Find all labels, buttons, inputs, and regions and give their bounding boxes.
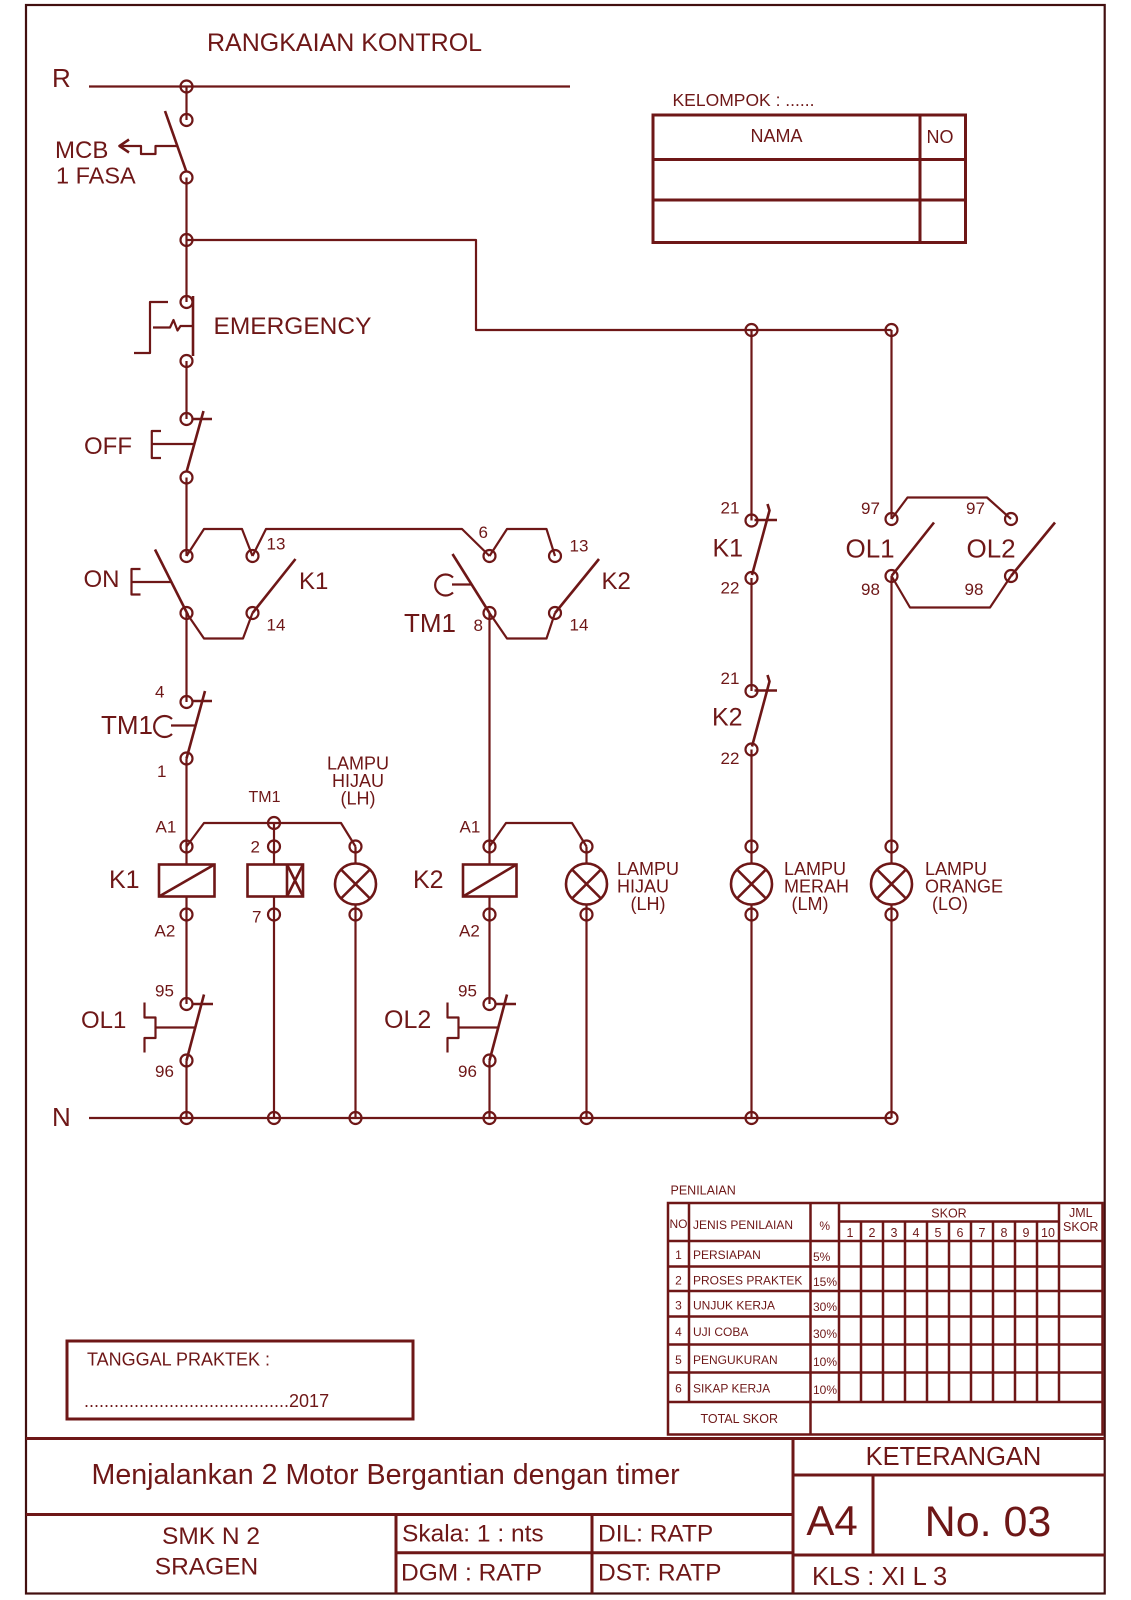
- wire tap to node 2: [273, 823, 275, 865]
- svg-text:JENIS PENILAIAN: JENIS PENILAIAN: [693, 1218, 793, 1232]
- timer contact TM1 6-8: [404, 523, 496, 638]
- node lamp LH1 bottom: [350, 909, 362, 921]
- wire OFF to ON: [185, 478, 187, 557]
- svg-text:OL2: OL2: [967, 534, 1016, 564]
- svg-text:A1: A1: [460, 818, 481, 837]
- node R-MCB junction: [181, 81, 193, 93]
- node A1 of K2: [484, 841, 496, 853]
- NC overload aux OL1 97-98: [846, 499, 935, 599]
- svg-text:A2: A2: [155, 922, 176, 941]
- wire branch bus to lamp LH2: [490, 823, 587, 847]
- table KELOMPOK names: [653, 115, 966, 243]
- wire emergency to OFF: [185, 361, 187, 419]
- node N-LH2: [581, 1112, 593, 1124]
- node 2 TM1 coil: [268, 841, 280, 853]
- timer coil TM1: [248, 865, 304, 897]
- label LAMPU ORANGE (LO): [925, 859, 1003, 914]
- svg-text:5: 5: [675, 1353, 682, 1367]
- box TANGGAL PRAKTEK: [67, 1341, 413, 1419]
- svg-text:10%: 10%: [813, 1383, 837, 1397]
- svg-text:TM1: TM1: [249, 789, 281, 806]
- svg-text:PERSIAPAN: PERSIAPAN: [693, 1248, 761, 1262]
- node N-LM: [746, 1112, 758, 1124]
- svg-text:EMERGENCY: EMERGENCY: [214, 313, 372, 340]
- svg-text:2: 2: [675, 1274, 682, 1288]
- node N-LH1: [350, 1112, 362, 1124]
- lamp LO orange: [871, 864, 912, 905]
- svg-text:SRAGEN: SRAGEN: [155, 1554, 258, 1581]
- svg-text:95: 95: [458, 982, 477, 1001]
- svg-text:TOTAL SKOR: TOTAL SKOR: [700, 1412, 778, 1426]
- label SMK N 2 SRAGEN: [155, 1523, 260, 1581]
- wire branch bus to TM1 coil and lamp LH1: [187, 823, 356, 847]
- svg-text:(LH): (LH): [631, 894, 666, 914]
- svg-text:K1: K1: [299, 568, 328, 595]
- NC contact K2 21-22: [712, 669, 777, 768]
- auxiliary contact K1 13-14: [247, 535, 329, 635]
- push button ON: [84, 550, 193, 620]
- svg-text:9: 9: [1023, 1226, 1030, 1240]
- wire K2 coil to OL2: [488, 897, 490, 1005]
- svg-text:21: 21: [721, 669, 740, 688]
- node lamp LH1 top: [350, 841, 362, 853]
- svg-text:(LM): (LM): [792, 894, 829, 914]
- svg-text:10%: 10%: [813, 1355, 837, 1369]
- wire bus 97-97: [892, 498, 1012, 520]
- svg-text:96: 96: [458, 1062, 477, 1081]
- svg-text:13: 13: [267, 535, 286, 554]
- breaker MCB 1 FASA: [55, 111, 193, 189]
- push button OFF: [84, 411, 212, 484]
- node right branch OL column: [886, 324, 898, 336]
- wire lamp LO to N: [890, 905, 892, 1119]
- svg-text:UNJUK KERJA: UNJUK KERJA: [693, 1299, 775, 1313]
- svg-text:8: 8: [1001, 1226, 1008, 1240]
- node lamp LM top: [746, 841, 758, 853]
- svg-text:21: 21: [721, 499, 740, 518]
- svg-text:15%: 15%: [813, 1275, 837, 1289]
- svg-text:SKOR: SKOR: [1063, 1220, 1098, 1234]
- svg-text:N: N: [52, 1102, 71, 1132]
- svg-text:TM1: TM1: [101, 710, 153, 740]
- svg-text:6: 6: [479, 523, 488, 542]
- wire lamp LM to N: [750, 905, 752, 1119]
- wire top bus to K1 aux contact: [187, 529, 253, 556]
- svg-text:97: 97: [966, 499, 985, 518]
- node A2 of K1: [181, 909, 193, 921]
- wire N bus: [89, 1117, 892, 1119]
- svg-text:1: 1: [157, 762, 166, 781]
- svg-text:1: 1: [847, 1226, 854, 1240]
- svg-text:(LH): (LH): [341, 789, 376, 809]
- wire bottom bus ON to 14: [187, 613, 253, 639]
- svg-text:DST: RATP: DST: RATP: [598, 1559, 721, 1586]
- svg-text:96: 96: [155, 1062, 174, 1081]
- svg-text:3: 3: [891, 1226, 898, 1240]
- svg-text:22: 22: [721, 579, 740, 598]
- wire bottom bus 8 to 14: [490, 613, 556, 639]
- emergency stop switch EMERGENCY: [134, 296, 371, 367]
- node lamp LO bottom: [886, 909, 898, 921]
- svg-text:3: 3: [675, 1299, 682, 1313]
- svg-text:PENILAIAN: PENILAIAN: [671, 1184, 736, 1198]
- svg-text:MCB: MCB: [55, 137, 108, 164]
- svg-text:5%: 5%: [813, 1250, 831, 1264]
- node right branch K1-NC column: [746, 324, 758, 336]
- wire K2 NC to lamp LM: [750, 750, 752, 864]
- svg-text:..............................: ........................................…: [84, 1391, 329, 1411]
- wire K1 NC to K2 NC: [750, 578, 752, 691]
- svg-text:SIKAP KERJA: SIKAP KERJA: [693, 1382, 770, 1396]
- svg-text:22: 22: [721, 749, 740, 768]
- overload contact OL1 95-96: [81, 982, 213, 1082]
- svg-text:KELOMPOK : ......: KELOMPOK : ......: [673, 90, 815, 110]
- svg-text:JML: JML: [1069, 1206, 1093, 1220]
- svg-text:4: 4: [675, 1325, 682, 1339]
- svg-text:7: 7: [252, 908, 261, 927]
- label LAMPU HIJAU (LH): [327, 754, 389, 809]
- wire top bus to K2 branch: [253, 529, 490, 556]
- coil K2: [413, 865, 517, 897]
- svg-text:No. 03: No. 03: [925, 1498, 1052, 1546]
- svg-text:OL1: OL1: [846, 534, 895, 564]
- svg-text:8: 8: [474, 616, 483, 635]
- svg-text:95: 95: [155, 982, 174, 1001]
- svg-text:14: 14: [570, 616, 589, 635]
- node TM1 coil bus tap: [268, 817, 280, 829]
- wire ON bottom to TM1 contact: [185, 613, 187, 702]
- svg-text:4: 4: [155, 683, 164, 702]
- svg-text:ON: ON: [84, 566, 120, 593]
- coil K1: [109, 865, 215, 897]
- svg-text:KLS : XI L 3: KLS : XI L 3: [812, 1563, 947, 1591]
- svg-text:(LO): (LO): [932, 894, 968, 914]
- svg-text:97: 97: [861, 499, 880, 518]
- node lamp LH2 bottom: [581, 909, 593, 921]
- node branch junction: [181, 234, 193, 246]
- node lamp LO top: [886, 841, 898, 853]
- lamp LH1 green: [335, 864, 376, 905]
- svg-text:NO: NO: [927, 127, 954, 147]
- svg-text:A4: A4: [806, 1497, 857, 1544]
- svg-text:Skala: 1 : nts: Skala: 1 : nts: [402, 1521, 544, 1548]
- lamp LM red: [731, 864, 772, 905]
- svg-text:6: 6: [957, 1226, 964, 1240]
- svg-text:10: 10: [1041, 1226, 1055, 1240]
- wire OL2 to N: [488, 1061, 490, 1119]
- svg-text:UJI COBA: UJI COBA: [693, 1325, 748, 1339]
- node 7 TM1 coil: [268, 909, 280, 921]
- wire R bus: [89, 85, 570, 87]
- svg-text:%: %: [819, 1219, 830, 1233]
- svg-text:NO: NO: [670, 1217, 688, 1231]
- svg-text:6: 6: [675, 1382, 682, 1396]
- svg-text:SMK N 2: SMK N 2: [162, 1523, 260, 1550]
- table PENILAIAN score: [668, 1203, 1103, 1435]
- svg-text:5: 5: [935, 1226, 942, 1240]
- node N-TM1coil: [268, 1112, 280, 1124]
- node N-OL2: [484, 1112, 496, 1124]
- lamp LH2 green: [566, 864, 607, 905]
- wire K1 coil to OL1: [185, 897, 187, 1005]
- svg-text:30%: 30%: [813, 1300, 837, 1314]
- wire TM1-8 node to K2 coil: [488, 613, 490, 865]
- svg-text:DGM : RATP: DGM : RATP: [401, 1559, 542, 1586]
- svg-text:13: 13: [570, 537, 589, 556]
- svg-text:1 FASA: 1 FASA: [56, 163, 136, 189]
- svg-text:A2: A2: [459, 922, 480, 941]
- label LAMPU HIJAU (LH) 2: [617, 859, 679, 914]
- svg-text:R: R: [52, 63, 71, 93]
- wire bus 98-98: [892, 576, 1012, 608]
- svg-text:K1: K1: [109, 866, 140, 894]
- wire junction to right branches: [187, 240, 892, 330]
- wire bus 6 to 13 of K2 aux: [490, 529, 556, 556]
- title block frame: [26, 1439, 1105, 1594]
- svg-text:Menjalankan 2 Motor Bergantian: Menjalankan 2 Motor Bergantian dengan ti…: [92, 1459, 681, 1491]
- NC overload aux OL2 97-98: [965, 499, 1056, 599]
- svg-text:OL1: OL1: [81, 1007, 126, 1034]
- svg-text:K2: K2: [712, 704, 743, 732]
- svg-text:A1: A1: [156, 818, 177, 837]
- svg-text:7: 7: [979, 1226, 986, 1240]
- node A1 of K1: [181, 841, 193, 853]
- wire right branch to OL aux: [890, 330, 892, 519]
- node N-OL1: [181, 1112, 193, 1124]
- svg-text:14: 14: [267, 616, 286, 635]
- svg-text:2: 2: [251, 838, 260, 857]
- wire TM1 coil to N: [273, 897, 275, 1119]
- svg-text:OFF: OFF: [84, 433, 132, 460]
- node N-LO: [886, 1112, 898, 1124]
- svg-text:DIL: RATP: DIL: RATP: [598, 1521, 713, 1548]
- timer contact TM1 4-1: [101, 683, 212, 782]
- svg-text:30%: 30%: [813, 1327, 837, 1341]
- wire MCB to branch junction: [185, 87, 187, 121]
- svg-text:PENGUKURAN: PENGUKURAN: [693, 1353, 778, 1367]
- svg-text:PROSES PRAKTEK: PROSES PRAKTEK: [693, 1274, 802, 1288]
- wire TM1 contact to node A1: [185, 759, 187, 865]
- svg-text:RANGKAIAN KONTROL: RANGKAIAN KONTROL: [207, 29, 482, 57]
- svg-text:K2: K2: [413, 866, 444, 894]
- svg-text:2: 2: [869, 1226, 876, 1240]
- node lamp LH2 top: [581, 841, 593, 853]
- overload contact OL2 95-96: [384, 982, 516, 1082]
- svg-text:NAMA: NAMA: [750, 126, 802, 146]
- label LAMPU MERAH (LM): [784, 859, 849, 914]
- svg-text:K1: K1: [713, 535, 744, 563]
- wire right branch to K1 NC: [750, 330, 752, 521]
- svg-text:OL2: OL2: [384, 1006, 431, 1034]
- svg-text:KETERANGAN: KETERANGAN: [866, 1443, 1042, 1471]
- wire lamp LH1 to N: [354, 847, 356, 864]
- svg-text:TM1: TM1: [404, 608, 456, 638]
- svg-text:TANGGAL PRAKTEK :: TANGGAL PRAKTEK :: [87, 1350, 270, 1370]
- svg-text:4: 4: [913, 1226, 920, 1240]
- node lamp LM bottom: [746, 909, 758, 921]
- svg-text:98: 98: [861, 580, 880, 599]
- wire OL1 to N: [185, 1061, 187, 1119]
- wire OL aux to lamp LO: [890, 576, 892, 864]
- svg-text:K2: K2: [602, 568, 631, 595]
- NC contact K1 21-22: [713, 499, 778, 598]
- auxiliary contact K2 13-14: [484, 537, 631, 635]
- wire lamp LH2 to N: [585, 847, 587, 864]
- svg-text:SKOR: SKOR: [931, 1207, 966, 1221]
- svg-text:98: 98: [965, 580, 984, 599]
- svg-text:1: 1: [675, 1248, 682, 1262]
- node A2 of K2: [484, 909, 496, 921]
